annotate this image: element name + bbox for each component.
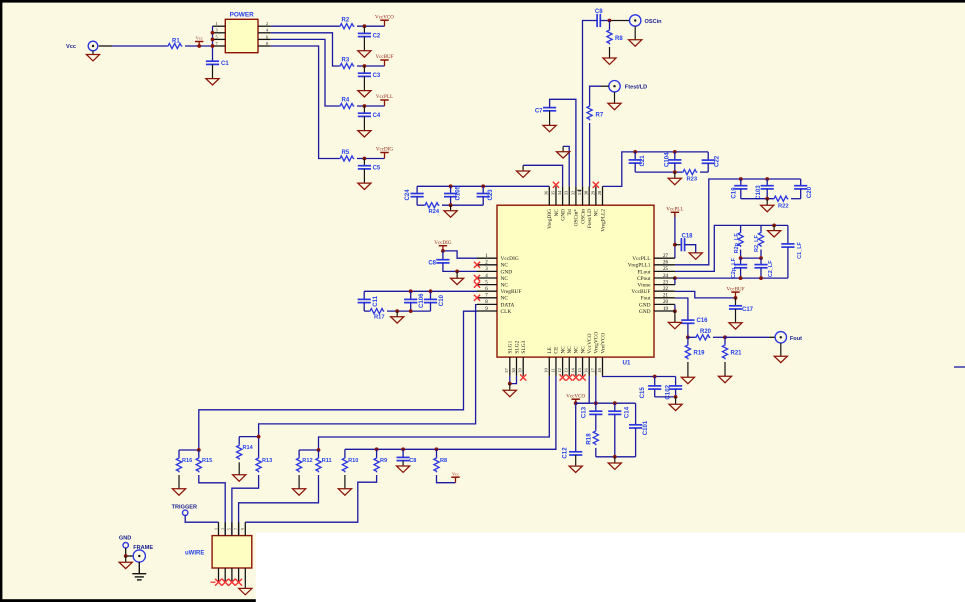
resistor R8 (OSC): [609, 21, 611, 30]
svg-text:19: 19: [663, 307, 669, 312]
svg-text:27: 27: [663, 254, 669, 259]
ground at pin33 net: [562, 146, 564, 151]
junction dots on VccVCO rail: [594, 401, 598, 405]
svg-text:R12: R12: [302, 458, 312, 464]
svg-text:NC: NC: [501, 276, 509, 282]
svg-text:R11: R11: [322, 458, 332, 464]
capacitor C23: [482, 186, 484, 193]
wire pin16 VccVCO jog: [576, 376, 590, 403]
ground under R10: [344, 475, 346, 489]
wire CPout to Vtune: [674, 278, 676, 285]
svg-text:33: 33: [564, 190, 569, 195]
wire C22 bottom to R23: [707, 163, 709, 172]
capacitor C14: [614, 403, 616, 411]
resistor R18: [595, 414, 597, 430]
svg-text:Vcc: Vcc: [196, 36, 203, 41]
ground under VregBUF rail: [396, 311, 398, 317]
junction at GND: [124, 554, 128, 558]
wire POWER pin2 to R2: [271, 25, 339, 27]
svg-text:C2_LF: C2_LF: [768, 260, 774, 277]
svg-text:VregVCO: VregVCO: [594, 332, 600, 354]
ground after C18: [685, 245, 696, 253]
svg-text:38: 38: [511, 368, 516, 373]
svg-text:39: 39: [518, 368, 523, 373]
capacitor C4: [363, 106, 365, 113]
svg-text:CLK: CLK: [501, 309, 512, 315]
power symbol VccVCO: [380, 19, 388, 21]
svg-text:C18: C18: [681, 234, 693, 240]
svg-text:C16: C16: [697, 318, 709, 324]
wire VccVCO bottom rail: [596, 456, 636, 458]
wire pins 20/19 GND tie: [674, 305, 676, 312]
capacitor C8 (OSCin): [596, 14, 598, 27]
svg-text:20: 20: [663, 300, 669, 305]
ground under Ftest/LD port: [614, 92, 616, 103]
svg-text:C106: C106: [418, 293, 425, 308]
port Fout: [775, 332, 786, 343]
resistor R4: [339, 103, 354, 108]
junction at pin24 CPout: [673, 276, 677, 280]
dash near pin 32: [577, 189, 581, 191]
capacitor C1_LF: [787, 225, 789, 244]
junction at VccVCO: [574, 401, 578, 405]
svg-text:5: 5: [215, 34, 217, 39]
wire pin9 CLK route: [199, 311, 477, 450]
svg-text:SLG2: SLG2: [514, 340, 520, 353]
resistor R24: [424, 203, 439, 208]
capacitor C2: [363, 26, 365, 33]
svg-text:GND: GND: [560, 209, 566, 221]
wire R13 to uWIRE pin 5: [232, 475, 259, 536]
svg-text:R16: R16: [182, 458, 192, 464]
wire pin6 VregBUF rail: [364, 290, 477, 292]
ground under C103: [766, 199, 768, 206]
svg-text:C2: C2: [373, 33, 381, 39]
resistor R8 (pull): [436, 449, 438, 457]
junction under C104: [673, 170, 677, 174]
wire CPout rail: [675, 277, 788, 279]
svg-text:GND: GND: [501, 269, 513, 275]
svg-text:C1_LF: C1_LF: [797, 241, 803, 258]
capacitor C8 (VccDIG): [442, 251, 444, 260]
capacitor C102: [675, 377, 677, 386]
U1 top pins 36-28: [548, 186, 550, 205]
junction at R11 top: [317, 448, 321, 452]
junction at C4: [363, 104, 367, 108]
wire pin28 VregPLL2 to filter caps: [603, 152, 709, 187]
junction at C2: [363, 24, 367, 28]
wire pin26 VregPLL1 rail: [675, 179, 801, 265]
svg-text:17: 17: [590, 368, 595, 373]
capacitor C17: [735, 298, 737, 306]
svg-text:37: 37: [504, 368, 509, 373]
junction at R13: [257, 435, 261, 439]
resistor R2: [339, 24, 354, 29]
capacitor C7: [543, 107, 556, 109]
junction at SLG ground: [508, 382, 512, 386]
svg-text:VccBUF: VccBUF: [726, 286, 744, 292]
svg-text:R3: R3: [342, 57, 350, 63]
ground under R8: [609, 47, 611, 58]
junction dots on pin rail: [211, 31, 215, 35]
ground under C3: [363, 76, 365, 90]
resistor R19: [687, 337, 689, 344]
power symbol VccBUF: [380, 59, 388, 61]
junction at C15: [653, 375, 657, 379]
junction at R20 left: [686, 335, 690, 339]
no-connect marks U1 left: [474, 262, 480, 268]
port Ftest/LD: [609, 81, 620, 92]
svg-text:VregBUF: VregBUF: [501, 289, 522, 295]
wire R2 to VccVCO node: [357, 25, 385, 27]
resistor R22: [773, 196, 788, 201]
capacitor C13: [595, 403, 597, 411]
ground under GND port: [125, 556, 127, 562]
svg-text:3: 3: [215, 28, 217, 33]
no-connect marks on uWIRE bottom pins: [211, 581, 216, 583]
capacitor C18: [675, 244, 682, 246]
svg-text:NC: NC: [574, 346, 580, 354]
resistor R9: [376, 449, 378, 457]
junction at pin19: [673, 309, 677, 313]
svg-text:R7: R7: [596, 113, 604, 119]
svg-text:2: 2: [266, 21, 268, 26]
connector POWER: [225, 19, 258, 52]
svg-text:CE: CE: [554, 346, 560, 354]
svg-text:VccVCO: VccVCO: [566, 393, 585, 399]
svg-text:R22: R22: [778, 204, 789, 210]
wire C8 bottom to pin3 GND: [443, 263, 477, 272]
svg-text:C104: C104: [664, 152, 671, 167]
power symbol VccPLL: [380, 99, 388, 101]
svg-text:VregDIG: VregDIG: [547, 209, 553, 229]
earth ground under FRAME: [138, 562, 140, 574]
svg-text:25: 25: [663, 267, 669, 272]
capacitor C8 (pull): [402, 449, 404, 457]
resistor R12: [299, 449, 318, 451]
svg-text:13: 13: [564, 368, 569, 373]
ground under R12: [298, 475, 300, 489]
svg-text:VccVCO: VccVCO: [587, 333, 593, 353]
svg-text:5: 5: [228, 528, 232, 530]
svg-text:7: 7: [234, 528, 238, 530]
resistor R16: [179, 449, 199, 451]
svg-text:CPout: CPout: [637, 276, 651, 282]
svg-text:C2p_LF: C2p_LF: [731, 257, 737, 278]
svg-text:3: 3: [221, 528, 225, 530]
power symbol Vcc at R1: [195, 41, 203, 43]
capacitor C1: [206, 60, 219, 62]
wire R14 to R13: [239, 436, 258, 438]
svg-text:C103: C103: [755, 185, 762, 200]
svg-text:C4: C4: [373, 113, 381, 119]
IC U1 body: [497, 205, 654, 357]
wire C20 bottom to R22: [800, 189, 802, 199]
ground under R19: [687, 362, 689, 377]
junction at Vcc stub: [197, 44, 201, 48]
junction at C3: [363, 64, 367, 68]
svg-text:LE: LE: [547, 346, 553, 353]
svg-text:R10: R10: [348, 458, 358, 464]
ground under C2: [363, 37, 365, 51]
svg-text:NC: NC: [560, 346, 566, 354]
ground under R16: [178, 475, 180, 489]
resistor R13: [256, 457, 261, 472]
junction at C5: [363, 157, 367, 161]
svg-text:6: 6: [266, 34, 268, 39]
svg-text:VrefVCO: VrefVCO: [599, 333, 606, 354]
svg-text:R2: R2: [342, 18, 350, 24]
svg-text:Ftest/LD: Ftest/LD: [625, 85, 647, 91]
capacitor C21: [634, 152, 636, 160]
junction at R20 right: [723, 335, 727, 339]
resistor R15: [198, 450, 200, 457]
svg-text:Vtune: Vtune: [637, 283, 651, 289]
svg-text:R8: R8: [440, 458, 447, 464]
ground under Vcc port: [92, 51, 94, 55]
resistor R3: [339, 63, 354, 68]
wire pin8 DATA route: [259, 305, 477, 457]
svg-text:C105: C105: [454, 185, 461, 200]
svg-text:R8: R8: [615, 36, 623, 42]
svg-text:FLout: FLout: [637, 269, 651, 275]
svg-text:35: 35: [550, 190, 555, 195]
capacitor C2p_LF: [740, 258, 742, 265]
junction dots on VregDIG bus: [449, 184, 453, 188]
wire C19/C103 bottom rail: [740, 189, 742, 199]
svg-text:VccDIG: VccDIG: [434, 240, 452, 246]
capacitor C20: [800, 179, 802, 186]
svg-text:15: 15: [577, 368, 582, 373]
junction at R8 (pull): [435, 447, 439, 451]
wire to Fout port: [725, 336, 769, 338]
svg-text:R24: R24: [429, 209, 440, 215]
svg-text:C7: C7: [535, 108, 543, 114]
wire bus ground rail: [416, 197, 418, 206]
svg-text:R14: R14: [243, 445, 254, 451]
svg-text:SLG1: SLG1: [508, 340, 514, 353]
svg-text:R13: R13: [262, 458, 272, 464]
svg-text:C15: C15: [639, 387, 646, 399]
wire C8 to OSCin port: [600, 20, 609, 22]
sheet border left: [0, 0, 2, 602]
resistor R2p_LF: [740, 225, 742, 231]
wire pin21 Fout to C16: [675, 298, 688, 320]
ground under C8 (pull): [402, 461, 404, 466]
ground under C12: [575, 455, 577, 466]
svg-text:DATA: DATA: [501, 302, 515, 308]
U1 bottom pins 10-18: [548, 357, 550, 376]
no-connect marks U1 top: [553, 182, 559, 188]
svg-text:C101: C101: [642, 420, 649, 435]
svg-text:36: 36: [544, 190, 549, 195]
wire pin11 CE route: [345, 376, 556, 450]
wire pin34 GND to ground: [523, 165, 563, 186]
svg-text:23: 23: [663, 280, 669, 285]
svg-text:26: 26: [663, 261, 669, 266]
svg-text:C3: C3: [373, 73, 381, 79]
power symbol VccDIG: [380, 152, 388, 154]
svg-text:C23: C23: [487, 189, 494, 201]
wire C15/C102 bottom rail: [654, 389, 656, 397]
capacitor C3: [363, 66, 365, 73]
capacitor C104: [674, 152, 676, 160]
svg-text:VregPLL2: VregPLL2: [600, 209, 606, 232]
wire OSCin line down to pin 31: [583, 21, 598, 187]
power symbol VccPLL: [671, 211, 679, 213]
capacitor C22: [707, 152, 709, 160]
wire R8 to Vcc: [437, 475, 456, 483]
svg-text:C12: C12: [562, 447, 569, 459]
resistor R23: [682, 170, 697, 175]
svg-text:C8: C8: [428, 260, 436, 266]
wire GND to FRAME: [125, 548, 127, 556]
ground at pin34 net: [522, 165, 524, 171]
svg-text:C5: C5: [373, 166, 381, 172]
wire R7 to pin 30: [589, 123, 591, 186]
wire loop filter mid rail: [740, 250, 742, 259]
wire R11 to uWIRE pin 7: [239, 475, 319, 536]
junction at R8: [608, 19, 612, 23]
resistor R17: [369, 309, 384, 314]
wire SLG1/SLG2 to ground: [509, 376, 511, 384]
ground under SLG pins: [509, 384, 511, 391]
wire pin17 VregVCO down: [595, 376, 597, 403]
junction at C8 (pull): [401, 447, 405, 451]
junction dots on VregBUF rail: [409, 289, 413, 293]
POWER left pins 1,3,5,7: [213, 25, 226, 27]
svg-text:NC: NC: [554, 209, 560, 217]
svg-text:Vcc: Vcc: [66, 44, 76, 50]
capacitor C5: [363, 159, 365, 166]
ground at pin3: [456, 271, 458, 278]
U1 SLG pins 37-39: [509, 357, 511, 376]
svg-text:10: 10: [544, 368, 549, 373]
junction at pin3 ground: [455, 270, 459, 274]
svg-text:C17: C17: [742, 307, 754, 313]
uWIRE bottom pins: [218, 568, 220, 582]
wire pin1 VccDIG: [443, 251, 477, 258]
svg-text:VccVCO: VccVCO: [375, 14, 394, 20]
resistor R20: [695, 335, 710, 340]
svg-text:R18: R18: [586, 433, 593, 445]
svg-text:8: 8: [266, 41, 268, 46]
ground under C105: [450, 205, 452, 211]
svg-text:R9: R9: [380, 458, 387, 464]
ground under Fout port: [780, 343, 782, 356]
power symbol Vcc at R8: [451, 476, 459, 478]
svg-text:R5: R5: [342, 150, 350, 156]
svg-text:GND: GND: [639, 302, 651, 308]
svg-text:1: 1: [214, 528, 218, 530]
svg-text:1: 1: [215, 21, 217, 26]
svg-text:7: 7: [215, 41, 217, 46]
svg-text:OSCin*: OSCin*: [574, 209, 580, 227]
junction at C18: [673, 243, 677, 247]
junction dots on bottom rail: [395, 309, 399, 313]
svg-text:OSCin: OSCin: [645, 19, 663, 25]
capacitor C12: [575, 403, 577, 452]
junction under C105: [449, 203, 453, 207]
svg-text:R4: R4: [342, 97, 350, 103]
svg-text:U1: U1: [623, 359, 631, 366]
wire R3 to VccBUF node: [357, 65, 385, 67]
capacitor C16: [681, 319, 694, 321]
svg-text:C22: C22: [714, 155, 721, 167]
svg-text:VccBUF: VccBUF: [631, 289, 650, 295]
svg-text:30: 30: [584, 190, 589, 195]
svg-text:Tst: Tst: [567, 209, 573, 216]
svg-text:9: 9: [241, 528, 245, 530]
svg-text:NC: NC: [501, 296, 509, 302]
wire pin22 VccBUF to C17: [675, 291, 736, 298]
svg-text:NC: NC: [580, 346, 586, 354]
svg-text:18: 18: [597, 368, 602, 373]
wire R9 to uWIRE pin 9: [245, 475, 376, 522]
capacitor C15: [654, 377, 656, 386]
resistor R14: [238, 437, 240, 445]
svg-text:GND: GND: [639, 309, 651, 315]
wire POWER pin8 to R5: [271, 46, 339, 159]
wire VregDIG bus: [417, 185, 549, 187]
svg-text:11: 11: [550, 368, 555, 372]
ground under C17: [735, 309, 737, 323]
svg-text:VccPLL: VccPLL: [376, 94, 393, 100]
wire Ftest/LD to R7: [601, 85, 609, 87]
svg-text:uWIRE: uWIRE: [185, 551, 204, 557]
ground under C1: [212, 64, 214, 78]
wire pin27 VccPLL up: [674, 212, 676, 258]
svg-text:Vcc: Vcc: [452, 471, 459, 476]
ground under pins 20/19: [674, 311, 676, 322]
svg-text:R2_LF: R2_LF: [754, 235, 760, 252]
junction on loop filter top rail: [772, 224, 776, 228]
resistor R7: [587, 105, 592, 120]
wire POWER left pin rail: [212, 26, 214, 61]
wire R15 to uWIRE pin 3: [199, 475, 225, 536]
resistor R2_LF: [760, 225, 762, 231]
ground under C104: [674, 172, 676, 178]
wire POWER pin4 to R3: [271, 33, 339, 66]
svg-text:OSCin: OSCin: [580, 209, 586, 224]
capacitor C11: [363, 291, 365, 299]
junction dots on VregPLL2 rail: [633, 150, 637, 154]
ground under C102: [675, 397, 677, 404]
resistor R11: [318, 450, 320, 457]
capacitor C19: [740, 179, 742, 186]
svg-text:NC: NC: [567, 346, 573, 354]
svg-text:C8: C8: [409, 458, 416, 464]
wire R4 to VccPLL node: [357, 105, 385, 107]
junction on bottom rail: [613, 455, 617, 459]
svg-text:C14: C14: [624, 406, 631, 418]
capacitor C24: [416, 186, 418, 193]
resistor R1: [167, 43, 182, 48]
wire stub at right edge: [954, 366, 965, 368]
wire R1 to POWER: [185, 45, 213, 47]
ground under C4: [363, 116, 365, 130]
ground under R21: [724, 362, 726, 376]
svg-text:34: 34: [557, 190, 562, 195]
resistor R10: [344, 449, 346, 457]
uWIRE top pins: [218, 522, 220, 535]
svg-text:VccPLL: VccPLL: [666, 207, 683, 213]
wire R5 to VccDIG node: [357, 158, 385, 160]
resistor R21: [724, 337, 726, 344]
svg-text:R17: R17: [374, 314, 385, 320]
svg-text:Ftest/LD: Ftest/LD: [587, 209, 593, 228]
svg-text:VccDIG: VccDIG: [376, 147, 394, 153]
